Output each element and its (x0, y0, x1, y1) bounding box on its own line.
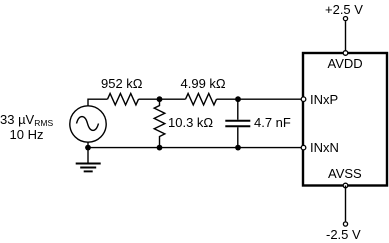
svg-text:952 kΩ: 952 kΩ (101, 76, 143, 91)
pin AVSS (343, 183, 348, 188)
terminal +2.5V (343, 17, 347, 21)
svg-text:10.3 kΩ: 10.3 kΩ (168, 115, 213, 130)
svg-text:-2.5 V: -2.5 V (326, 227, 361, 242)
wire top rail R952k to R4.99k (139, 98, 186, 100)
node junction top of 10.3k (157, 96, 163, 102)
IC U1 box (303, 53, 387, 186)
svg-text:INxN: INxN (310, 140, 339, 155)
wire top rail to INxP pin (217, 98, 302, 100)
resistor 952k (108, 94, 139, 105)
wire AVSS supply (345, 186, 347, 222)
svg-text:AVDD: AVDD (328, 56, 363, 71)
svg-text:4.99 kΩ: 4.99 kΩ (181, 76, 226, 91)
svg-text:+2.5 V: +2.5 V (325, 2, 363, 17)
svg-text:AVSS: AVSS (328, 166, 362, 181)
node source bottom (85, 145, 91, 151)
node bottom of capacitor (235, 145, 241, 151)
node top of capacitor (235, 96, 241, 102)
pin INxN (301, 145, 306, 150)
ground (76, 148, 101, 172)
svg-text:INxP: INxP (310, 92, 338, 107)
wire AVDD supply (345, 21, 347, 53)
node bottom of 10.3k (157, 145, 163, 151)
resistor 4.99k (186, 94, 217, 105)
wire bottom rail (88, 142, 301, 147)
pin AVDD (343, 51, 348, 56)
wire source top to R 952k (88, 99, 108, 106)
resistor 10.3k (shunt) (154, 99, 165, 147)
svg-text:4.7 nF: 4.7 nF (254, 115, 291, 130)
terminal -2.5V (343, 222, 347, 226)
svg-text:10 Hz: 10 Hz (10, 127, 44, 142)
capacitor 4.7nF (225, 99, 250, 147)
pin INxP (301, 97, 306, 102)
voltage source VS (70, 106, 106, 142)
